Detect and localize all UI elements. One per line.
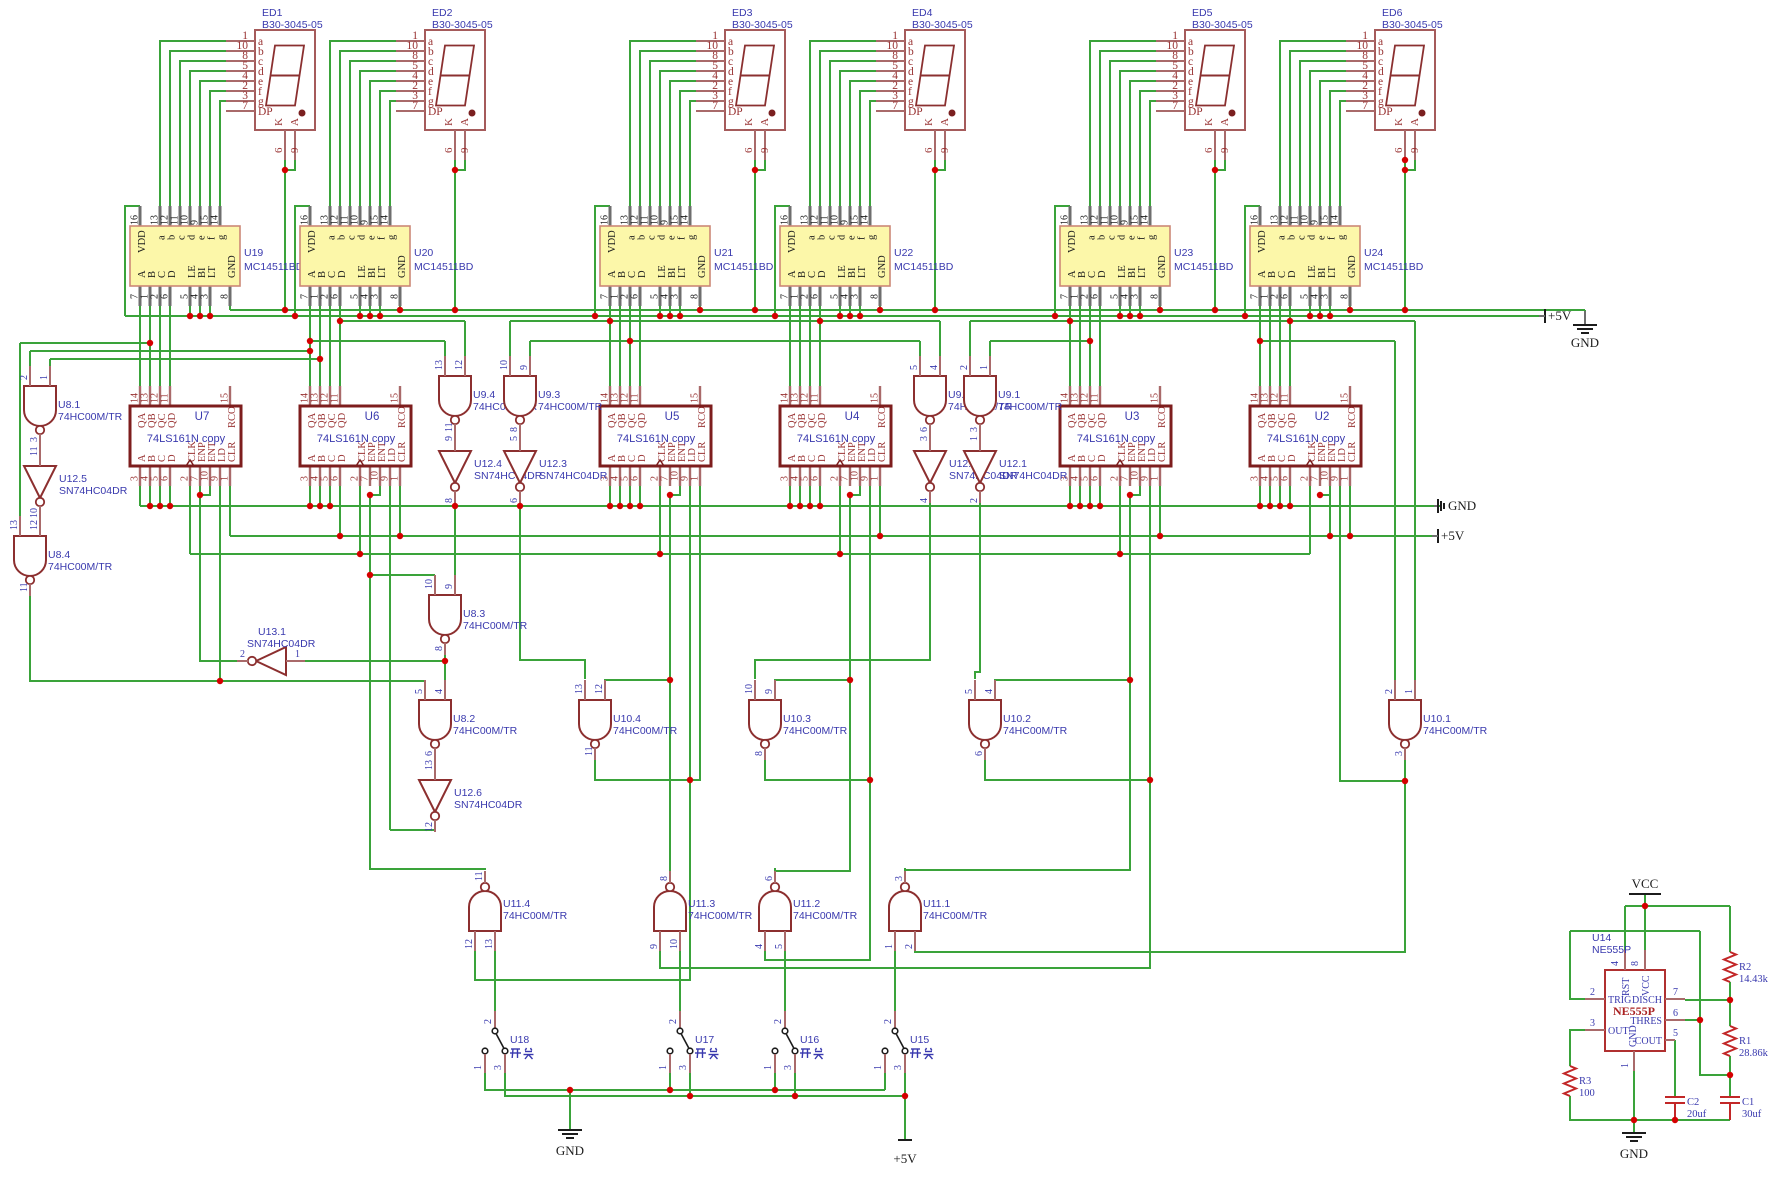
svg-text:U12.5: U12.5 <box>59 473 87 485</box>
svg-text:2: 2 <box>969 498 980 503</box>
svg-text:13: 13 <box>484 939 495 949</box>
svg-text:3: 3 <box>919 436 930 441</box>
svg-text:15: 15 <box>870 393 881 403</box>
svg-text:3: 3 <box>969 427 980 432</box>
svg-text:D: D <box>337 270 348 278</box>
svg-text:7: 7 <box>1673 987 1678 998</box>
svg-text:U20: U20 <box>414 247 433 259</box>
svg-text:2: 2 <box>1590 987 1595 998</box>
svg-text:C2: C2 <box>1687 1097 1699 1108</box>
svg-text:LT: LT <box>207 266 218 278</box>
svg-text:13: 13 <box>574 684 585 694</box>
svg-text:1: 1 <box>1620 1063 1631 1068</box>
svg-text:K: K <box>443 118 455 126</box>
svg-text:5: 5 <box>964 689 975 694</box>
svg-text:100: 100 <box>1579 1088 1595 1099</box>
svg-text:U11.1: U11.1 <box>923 898 950 910</box>
svg-text:6: 6 <box>630 294 641 299</box>
svg-text:CLR: CLR <box>1157 442 1168 462</box>
svg-text:3: 3 <box>850 294 861 299</box>
svg-text:14: 14 <box>680 215 691 225</box>
svg-text:U8.3: U8.3 <box>463 608 485 620</box>
svg-text:U10.2: U10.2 <box>1003 713 1031 725</box>
svg-text:9: 9 <box>519 365 530 370</box>
svg-text:RCO: RCO <box>697 406 708 428</box>
svg-text:1: 1 <box>763 1065 774 1070</box>
svg-text:8: 8 <box>1340 294 1351 299</box>
svg-text:8: 8 <box>1630 961 1641 966</box>
svg-text:2: 2 <box>240 649 245 660</box>
svg-text:GND: GND <box>877 255 888 278</box>
svg-text:11: 11 <box>330 393 341 403</box>
svg-text:5: 5 <box>909 365 920 370</box>
svg-text:A: A <box>459 118 471 126</box>
svg-text:3: 3 <box>893 1065 904 1070</box>
svg-text:3: 3 <box>200 294 211 299</box>
svg-text:6: 6 <box>330 476 341 481</box>
svg-text:3: 3 <box>493 1065 504 1070</box>
svg-text:14: 14 <box>1140 215 1151 225</box>
svg-text:6: 6 <box>630 476 641 481</box>
svg-text:CLR: CLR <box>1347 442 1358 462</box>
svg-text:6: 6 <box>160 294 171 299</box>
svg-text:11: 11 <box>1090 393 1101 403</box>
svg-text:1: 1 <box>884 944 895 949</box>
svg-text:R2: R2 <box>1739 962 1751 973</box>
svg-text:7: 7 <box>892 100 898 112</box>
svg-text:2: 2 <box>668 1019 679 1024</box>
svg-text:4: 4 <box>929 365 940 370</box>
svg-text:1: 1 <box>220 476 231 481</box>
svg-text:K: K <box>743 118 755 126</box>
svg-text:U10.1: U10.1 <box>1423 713 1451 725</box>
svg-text:8: 8 <box>754 751 765 756</box>
svg-text:D: D <box>1287 454 1298 462</box>
svg-text:14.43k: 14.43k <box>1739 974 1769 985</box>
svg-text:9: 9 <box>444 436 455 441</box>
svg-text:6: 6 <box>1673 1008 1678 1019</box>
svg-text:g: g <box>867 234 878 240</box>
svg-text:U13.1: U13.1 <box>258 626 286 638</box>
svg-text:13: 13 <box>434 360 445 370</box>
svg-text:1: 1 <box>1150 476 1161 481</box>
svg-text:9: 9 <box>649 944 660 949</box>
svg-text:6: 6 <box>443 147 455 153</box>
svg-text:2: 2 <box>1384 689 1395 694</box>
svg-text:15: 15 <box>1340 393 1351 403</box>
svg-text:U18: U18 <box>510 1034 529 1046</box>
svg-text:U12.1: U12.1 <box>999 458 1027 470</box>
svg-text:2: 2 <box>904 944 915 949</box>
svg-text:74HC00M/TR: 74HC00M/TR <box>538 401 603 413</box>
svg-text:K: K <box>923 118 935 126</box>
svg-text:DP: DP <box>728 106 743 118</box>
svg-text:VDD: VDD <box>787 230 798 253</box>
svg-text:g: g <box>1337 234 1348 240</box>
svg-text:6: 6 <box>1393 147 1405 153</box>
svg-text:MC14511BD: MC14511BD <box>1174 261 1234 273</box>
svg-text:g: g <box>387 234 398 240</box>
svg-text:U24: U24 <box>1364 247 1383 259</box>
svg-text:VDD: VDD <box>307 230 318 253</box>
svg-text:10: 10 <box>669 939 680 949</box>
svg-text:U8.2: U8.2 <box>453 713 475 725</box>
svg-text:RCO: RCO <box>877 406 888 428</box>
svg-text:GND: GND <box>1620 1146 1648 1161</box>
svg-text:LT: LT <box>1137 266 1148 278</box>
svg-text:74HC00M/TR: 74HC00M/TR <box>783 725 848 737</box>
svg-text:VCC: VCC <box>1641 975 1652 996</box>
svg-text:U9.4: U9.4 <box>473 389 495 401</box>
svg-text:NE555P: NE555P <box>1592 944 1631 956</box>
svg-text:11: 11 <box>160 393 171 403</box>
svg-text:9: 9 <box>1219 147 1231 153</box>
svg-text:VDD: VDD <box>607 230 618 253</box>
svg-text:U11.2: U11.2 <box>793 898 820 910</box>
svg-text:A: A <box>1409 118 1421 126</box>
svg-text:LT: LT <box>677 266 688 278</box>
svg-text:11: 11 <box>810 393 821 403</box>
svg-text:6: 6 <box>424 751 435 756</box>
svg-text:3: 3 <box>894 876 905 881</box>
svg-text:74LS161N copy: 74LS161N copy <box>1077 433 1156 445</box>
svg-text:15: 15 <box>1150 393 1161 403</box>
svg-text:7: 7 <box>412 100 418 112</box>
svg-text:13: 13 <box>9 520 20 530</box>
svg-text:+5V: +5V <box>893 1151 917 1166</box>
svg-text:6: 6 <box>1203 147 1215 153</box>
svg-text:16: 16 <box>600 215 611 225</box>
svg-text:12: 12 <box>29 520 40 530</box>
svg-text:6: 6 <box>743 147 755 153</box>
svg-text:DP: DP <box>908 106 923 118</box>
svg-text:11: 11 <box>29 446 40 456</box>
svg-text:LT: LT <box>377 266 388 278</box>
svg-text:7: 7 <box>1362 100 1368 112</box>
svg-text:74HC00M/TR: 74HC00M/TR <box>793 910 858 922</box>
svg-text:D: D <box>167 454 178 462</box>
svg-text:ED5: ED5 <box>1192 7 1213 19</box>
svg-text:GND: GND <box>397 255 408 278</box>
svg-text:9: 9 <box>939 147 951 153</box>
svg-text:6: 6 <box>330 294 341 299</box>
svg-text:QD: QD <box>817 412 828 428</box>
svg-text:U4: U4 <box>845 411 860 423</box>
svg-text:U21: U21 <box>714 247 733 259</box>
svg-text:9: 9 <box>459 147 471 153</box>
svg-text:74HC00M/TR: 74HC00M/TR <box>463 620 528 632</box>
svg-text:5: 5 <box>1673 1028 1678 1039</box>
svg-text:GND: GND <box>1571 335 1599 350</box>
svg-text:1: 1 <box>690 476 701 481</box>
svg-text:B30-3045-05: B30-3045-05 <box>262 19 323 31</box>
svg-text:NE555P: NE555P <box>1613 1004 1655 1018</box>
svg-text:U17: U17 <box>695 1034 714 1046</box>
svg-text:4: 4 <box>984 689 995 694</box>
svg-text:U11.3: U11.3 <box>688 898 715 910</box>
svg-text:8: 8 <box>390 294 401 299</box>
svg-text:B30-3045-05: B30-3045-05 <box>732 19 793 31</box>
svg-text:CLR: CLR <box>397 442 408 462</box>
svg-text:74HC00M/TR: 74HC00M/TR <box>1003 725 1068 737</box>
svg-text:20uf: 20uf <box>1687 1109 1707 1120</box>
svg-text:13: 13 <box>424 760 435 770</box>
svg-text:U8.4: U8.4 <box>48 549 70 561</box>
svg-text:5: 5 <box>774 944 785 949</box>
svg-text:1: 1 <box>1340 476 1351 481</box>
svg-text:9: 9 <box>759 147 771 153</box>
svg-text:SN74HC04DR: SN74HC04DR <box>539 470 608 482</box>
svg-text:GND: GND <box>1347 255 1358 278</box>
svg-text:CLR: CLR <box>877 442 888 462</box>
svg-text:U12.3: U12.3 <box>539 458 567 470</box>
svg-text:8: 8 <box>509 427 520 432</box>
svg-text:7: 7 <box>712 100 718 112</box>
svg-text:8: 8 <box>690 294 701 299</box>
svg-text:D: D <box>637 454 648 462</box>
svg-text:7: 7 <box>242 100 248 112</box>
svg-text:12: 12 <box>594 684 605 694</box>
svg-text:2: 2 <box>959 365 970 370</box>
svg-text:DP: DP <box>1378 106 1393 118</box>
svg-text:74HC00M/TR: 74HC00M/TR <box>58 411 123 423</box>
svg-text:5: 5 <box>414 689 425 694</box>
svg-text:A: A <box>759 118 771 126</box>
svg-text:ED4: ED4 <box>912 7 933 19</box>
svg-text:3: 3 <box>29 437 40 442</box>
svg-text:28.86k: 28.86k <box>1739 1048 1769 1059</box>
svg-text:QD: QD <box>637 412 648 428</box>
svg-text:ED3: ED3 <box>732 7 753 19</box>
svg-text:74HC00M/TR: 74HC00M/TR <box>923 910 988 922</box>
svg-text:GND: GND <box>1157 255 1168 278</box>
svg-text:1: 1 <box>979 365 990 370</box>
svg-text:30uf: 30uf <box>1742 1109 1762 1120</box>
svg-text:74HC00M/TR: 74HC00M/TR <box>613 725 678 737</box>
svg-text:D: D <box>1097 454 1108 462</box>
svg-text:6: 6 <box>273 147 285 153</box>
svg-text:11: 11 <box>584 746 595 756</box>
svg-text:11: 11 <box>444 422 455 432</box>
svg-text:RCO: RCO <box>397 406 408 428</box>
svg-text:U10.4: U10.4 <box>613 713 641 725</box>
svg-text:10: 10 <box>29 508 40 518</box>
svg-text:U7: U7 <box>195 411 210 423</box>
svg-text:g: g <box>687 234 698 240</box>
svg-text:U12.6: U12.6 <box>454 787 482 799</box>
svg-text:1: 1 <box>1404 689 1415 694</box>
svg-text:ED2: ED2 <box>432 7 453 19</box>
svg-text:1: 1 <box>39 375 50 380</box>
svg-text:A: A <box>939 118 951 126</box>
svg-text:6: 6 <box>1090 294 1101 299</box>
svg-text:11: 11 <box>19 582 30 592</box>
svg-text:A: A <box>289 118 301 126</box>
svg-text:g: g <box>217 234 228 240</box>
svg-text:2: 2 <box>773 1019 784 1024</box>
svg-text:D: D <box>637 270 648 278</box>
svg-text:ED1: ED1 <box>262 7 283 19</box>
svg-text:K: K <box>1393 118 1405 126</box>
svg-text:U14: U14 <box>1592 932 1611 944</box>
svg-text:9: 9 <box>1409 147 1421 153</box>
svg-text:6: 6 <box>923 147 935 153</box>
svg-text:GND: GND <box>1448 498 1476 513</box>
svg-text:U8.1: U8.1 <box>58 399 80 411</box>
svg-text:15: 15 <box>390 393 401 403</box>
svg-text:7: 7 <box>1172 100 1178 112</box>
svg-text:D: D <box>817 454 828 462</box>
svg-text:12: 12 <box>464 939 475 949</box>
svg-text:R3: R3 <box>1579 1076 1591 1087</box>
svg-text:74LS161N copy: 74LS161N copy <box>147 433 226 445</box>
svg-text:6: 6 <box>764 876 775 881</box>
svg-text:9: 9 <box>444 584 455 589</box>
svg-text:SN74HC04DR: SN74HC04DR <box>474 470 543 482</box>
svg-text:SN74HC04DR: SN74HC04DR <box>999 470 1068 482</box>
svg-text:U19: U19 <box>244 247 263 259</box>
svg-text:9: 9 <box>289 147 301 153</box>
svg-text:VDD: VDD <box>1257 230 1268 253</box>
svg-text:ED6: ED6 <box>1382 7 1403 19</box>
svg-text:6: 6 <box>160 476 171 481</box>
svg-text:RCO: RCO <box>1157 406 1168 428</box>
svg-text:DP: DP <box>258 106 273 118</box>
svg-text:6: 6 <box>919 427 930 432</box>
svg-text:U9.3: U9.3 <box>538 389 560 401</box>
svg-text:16: 16 <box>130 215 141 225</box>
svg-text:QD: QD <box>1287 412 1298 428</box>
svg-text:D: D <box>1287 270 1298 278</box>
svg-text:U10.3: U10.3 <box>783 713 811 725</box>
svg-text:2: 2 <box>19 375 30 380</box>
svg-text:SN74HC04DR: SN74HC04DR <box>59 485 128 497</box>
svg-text:VCC: VCC <box>1632 876 1659 891</box>
svg-text:DP: DP <box>1188 106 1203 118</box>
svg-text:3: 3 <box>1130 294 1141 299</box>
svg-text:+5V: +5V <box>1441 528 1465 543</box>
svg-text:OUT: OUT <box>1608 1026 1629 1037</box>
svg-text:MC14511BD: MC14511BD <box>244 261 304 273</box>
svg-text:8: 8 <box>220 294 231 299</box>
svg-text:K: K <box>1203 118 1215 126</box>
svg-text:LT: LT <box>1327 266 1338 278</box>
svg-text:11: 11 <box>630 393 641 403</box>
svg-text:74HC00M/TR: 74HC00M/TR <box>998 401 1063 413</box>
svg-text:A: A <box>1219 118 1231 126</box>
svg-text:U11.4: U11.4 <box>503 898 530 910</box>
svg-text:QD: QD <box>167 412 178 428</box>
svg-text:10: 10 <box>744 684 755 694</box>
svg-text:74LS161N copy: 74LS161N copy <box>1267 433 1346 445</box>
svg-text:11: 11 <box>474 871 485 881</box>
svg-text:8: 8 <box>659 876 670 881</box>
svg-text:MC14511BD: MC14511BD <box>894 261 954 273</box>
svg-text:U12.4: U12.4 <box>474 458 502 470</box>
svg-text:4: 4 <box>1610 961 1621 966</box>
svg-text:1: 1 <box>969 436 980 441</box>
svg-text:GND: GND <box>227 255 238 278</box>
svg-text:B30-3045-05: B30-3045-05 <box>432 19 493 31</box>
svg-text:g: g <box>1147 234 1158 240</box>
svg-text:+5V: +5V <box>1548 308 1572 323</box>
svg-text:U2: U2 <box>1315 411 1330 423</box>
svg-text:U3: U3 <box>1125 411 1140 423</box>
svg-text:74LS161N copy: 74LS161N copy <box>617 433 696 445</box>
svg-text:16: 16 <box>780 215 791 225</box>
svg-text:74HC00M/TR: 74HC00M/TR <box>453 725 518 737</box>
svg-text:B30-3045-05: B30-3045-05 <box>1192 19 1253 31</box>
svg-text:MC14511BD: MC14511BD <box>714 261 774 273</box>
svg-text:D: D <box>167 270 178 278</box>
svg-text:MC14511BD: MC14511BD <box>414 261 474 273</box>
svg-text:CLR: CLR <box>697 442 708 462</box>
svg-text:1: 1 <box>873 1065 884 1070</box>
svg-text:MC14511BD: MC14511BD <box>1364 261 1424 273</box>
svg-text:74HC00M/TR: 74HC00M/TR <box>688 910 753 922</box>
svg-text:6: 6 <box>1280 476 1291 481</box>
svg-text:1: 1 <box>870 476 881 481</box>
svg-text:DP: DP <box>428 106 443 118</box>
svg-text:RCO: RCO <box>227 406 238 428</box>
svg-text:VDD: VDD <box>137 230 148 253</box>
svg-text:GND: GND <box>697 255 708 278</box>
svg-text:R1: R1 <box>1739 1036 1751 1047</box>
svg-text:12: 12 <box>424 822 435 832</box>
svg-text:14: 14 <box>210 215 221 225</box>
svg-text:6: 6 <box>974 751 985 756</box>
svg-text:SN74HC04DR: SN74HC04DR <box>247 638 316 650</box>
svg-text:GND: GND <box>1628 1025 1639 1047</box>
svg-text:D: D <box>817 270 828 278</box>
svg-text:8: 8 <box>1150 294 1161 299</box>
svg-text:SN74HC04DR: SN74HC04DR <box>454 799 523 811</box>
svg-text:K: K <box>273 118 285 126</box>
svg-text:5: 5 <box>509 436 520 441</box>
svg-text:10: 10 <box>499 360 510 370</box>
svg-text:10: 10 <box>424 579 435 589</box>
svg-text:4: 4 <box>434 689 445 694</box>
svg-text:16: 16 <box>1060 215 1071 225</box>
svg-text:74LS161N copy: 74LS161N copy <box>797 433 876 445</box>
svg-text:14: 14 <box>860 215 871 225</box>
svg-text:6: 6 <box>810 476 821 481</box>
svg-text:2: 2 <box>883 1019 894 1024</box>
svg-text:8: 8 <box>444 498 455 503</box>
svg-text:U23: U23 <box>1174 247 1193 259</box>
svg-text:8: 8 <box>870 294 881 299</box>
svg-text:11: 11 <box>1280 393 1291 403</box>
svg-text:1: 1 <box>473 1065 484 1070</box>
svg-text:14: 14 <box>380 215 391 225</box>
svg-text:QD: QD <box>1097 412 1108 428</box>
svg-text:3: 3 <box>1320 294 1331 299</box>
svg-text:8: 8 <box>434 646 445 651</box>
svg-text:U22: U22 <box>894 247 913 259</box>
svg-text:14: 14 <box>1330 215 1341 225</box>
svg-text:B30-3045-05: B30-3045-05 <box>912 19 973 31</box>
svg-text:2: 2 <box>483 1019 494 1024</box>
svg-text:16: 16 <box>1250 215 1261 225</box>
svg-text:B30-3045-05: B30-3045-05 <box>1382 19 1443 31</box>
svg-text:9: 9 <box>764 689 775 694</box>
svg-text:U15: U15 <box>910 1034 929 1046</box>
svg-text:VDD: VDD <box>1067 230 1078 253</box>
svg-text:CLR: CLR <box>227 442 238 462</box>
svg-text:16: 16 <box>300 215 311 225</box>
svg-text:4: 4 <box>754 944 765 949</box>
svg-text:3: 3 <box>678 1065 689 1070</box>
